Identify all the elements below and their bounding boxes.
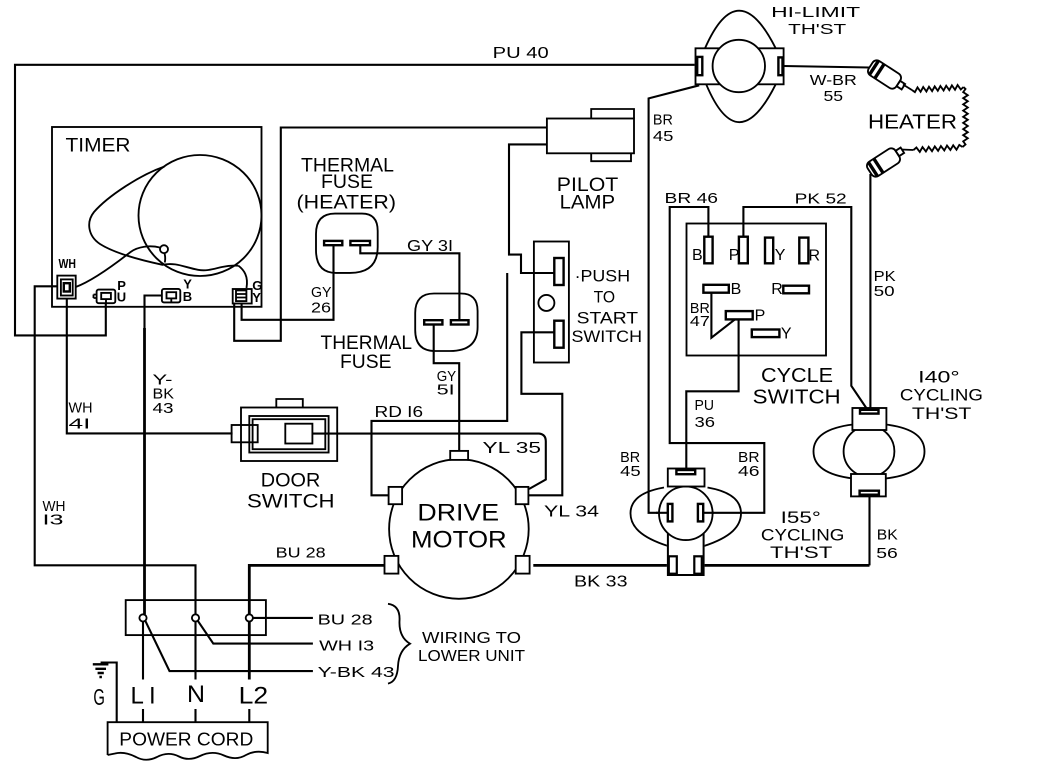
svg-text:THERMAL: THERMAL [321, 333, 413, 354]
svg-text:W-BR: W-BR [810, 72, 857, 89]
wire N down [194, 622, 196, 723]
155 t'stat left lobe [631, 488, 669, 547]
svg-text:DOOR: DOOR [261, 471, 321, 492]
svg-text:HEATER: HEATER [868, 112, 957, 134]
wire door switch to motor YL 35 plug [312, 434, 546, 489]
heater top plug connector [866, 58, 908, 93]
brace wiring to lower unit [388, 604, 410, 684]
wire BK 33 : motor lower-right tab to 155 t'stat and BK 56 [533, 564, 869, 567]
svg-text:SWITCH: SWITCH [753, 386, 841, 408]
thermal fuse (heater) right terminal [350, 241, 370, 245]
155 t'stat top tab [668, 469, 705, 487]
svg-text:B: B [183, 289, 192, 304]
svg-text:BU 28: BU 28 [276, 545, 326, 562]
thermal fuse left terminal [424, 320, 442, 324]
svg-text:LOWER UNIT: LOWER UNIT [418, 648, 525, 665]
svg-text:TH'ST: TH'ST [788, 21, 846, 38]
svg-text:FUSE: FUSE [340, 352, 392, 373]
svg-text:GY 3I: GY 3I [407, 238, 453, 255]
motor top tab [450, 451, 468, 460]
wire Y-BK 43 : timer Y/B terminal down to terminal block L1 [145, 296, 162, 331]
svg-text:I: I [149, 683, 156, 710]
wire plug tip to coil [903, 85, 912, 91]
svg-text:36: 36 [695, 414, 716, 431]
wire WH 13 stub to label [198, 621, 313, 644]
svg-text:SWITCH: SWITCH [572, 327, 643, 346]
svg-text:TIMER: TIMER [66, 136, 131, 157]
wire WH 13 : timer WH terminal to terminal block N [35, 286, 196, 614]
push-to-start top contact [554, 258, 563, 285]
svg-text:Y: Y [781, 325, 792, 342]
140 t'stat bottom tab [851, 474, 886, 496]
timer wire from WH terminal [76, 246, 160, 287]
svg-text:B: B [731, 281, 742, 298]
wire L2 down [248, 622, 251, 680]
door switch contact [285, 424, 312, 444]
svg-text:55: 55 [824, 88, 844, 105]
svg-text:CYCLING: CYCLING [761, 525, 845, 544]
wire PK 52 : cycle switch P to 140 t'stat top [743, 207, 868, 411]
svg-text:POWER CORD: POWER CORD [119, 728, 253, 749]
svg-text:BU 28: BU 28 [318, 612, 373, 629]
155 t'stat right contact [698, 504, 703, 522]
svg-text:I40°: I40° [918, 367, 960, 386]
svg-text:R: R [809, 248, 821, 265]
svg-text:4I: 4I [69, 416, 91, 433]
svg-text:G: G [93, 684, 105, 710]
timer tail to G/BY [238, 266, 247, 288]
wire PK 50 : heater bottom plug down to 140 t'stat [869, 174, 871, 411]
wire WH 41 : timer WH terminal down to door switch [67, 299, 233, 434]
svg-text:B: B [692, 247, 703, 264]
cycle switch contact P [726, 311, 753, 319]
svg-text:RD I6: RD I6 [375, 404, 424, 421]
svg-text:CYCLING: CYCLING [900, 386, 983, 405]
140 t'stat right lobe [886, 425, 925, 479]
door switch left plug [232, 425, 258, 442]
155 t'stat circle [659, 487, 713, 541]
svg-text:L2: L2 [239, 683, 269, 710]
wire BU 28 : motor lower-left tab to terminal block L2 [249, 565, 384, 614]
wire BR46 into right contact [703, 512, 714, 514]
wire BR 45 : hi-limit down to 155 t'stat left [649, 85, 700, 513]
svg-text:WIRING TO: WIRING TO [422, 630, 521, 647]
wire BU 28 stub to label [253, 617, 313, 619]
wire W-BR 55 : hi-limit to heater top plug [784, 66, 869, 68]
timer pivot hook [164, 253, 167, 262]
svg-text:PU: PU [695, 397, 715, 414]
timer cam circle [139, 155, 262, 276]
door switch top tab [276, 399, 303, 408]
cycle switch contact B [703, 285, 728, 293]
svg-text:DRIVE: DRIVE [417, 500, 499, 527]
wire YL 34 : push-to-start to motor upper-right tab [521, 332, 562, 495]
motor lower-right tab [516, 556, 530, 574]
svg-text:BK 33: BK 33 [574, 574, 628, 591]
svg-text:TO: TO [594, 287, 616, 306]
wire pilot lamp to push-to-start switch [509, 144, 554, 273]
svg-text:45: 45 [620, 463, 641, 480]
timer cam follower lobe [89, 167, 238, 271]
cycle switch box [687, 224, 827, 356]
timer terminal Y/B [162, 289, 180, 303]
pilot lamp top tab [591, 109, 634, 119]
svg-text:FUSE: FUSE [321, 172, 373, 193]
terminal L1 node [139, 614, 146, 621]
svg-text:GY: GY [311, 284, 332, 301]
svg-text:·PUSH: ·PUSH [575, 267, 631, 286]
push-to-start switch body [534, 242, 569, 363]
svg-text:BR: BR [653, 111, 673, 128]
drive motor circle [389, 459, 529, 599]
power cord box [108, 722, 268, 760]
svg-text:WH: WH [69, 400, 93, 417]
wire timer G/BY loop to pilot lamp [234, 128, 547, 341]
svg-text:HI-LIMIT: HI-LIMIT [771, 4, 860, 21]
svg-text:26: 26 [311, 300, 331, 317]
cycle switch terminal R [799, 238, 808, 264]
terminal N node [192, 614, 199, 621]
heater coil bottom run [914, 145, 963, 152]
svg-text:SWITCH: SWITCH [247, 491, 335, 512]
svg-text:LAMP: LAMP [560, 192, 616, 213]
svg-text:46: 46 [738, 463, 760, 480]
svg-text:P: P [755, 308, 766, 325]
svg-text:CYCLE: CYCLE [761, 365, 833, 387]
svg-text:50: 50 [874, 283, 895, 300]
motor upper-right tab [516, 487, 529, 504]
svg-text:47: 47 [690, 313, 710, 330]
svg-text:Y-BK 43: Y-BK 43 [318, 664, 395, 681]
wire coil to bottom plug tip [902, 149, 914, 152]
wire PU 40 : timer P/U terminal down, left border, top run to hi-limit [15, 65, 695, 336]
svg-text:45: 45 [653, 128, 674, 145]
svg-text:U: U [117, 290, 126, 305]
door switch outer body [241, 408, 337, 462]
hi-limit right contact [778, 57, 782, 75]
cycle switch terminal P [739, 237, 748, 264]
155 t'stat right foot [694, 556, 702, 573]
heater coil right run [963, 87, 968, 147]
terminal block [126, 600, 266, 635]
timer terminal WH [57, 276, 75, 299]
wire BR 46 : cycle switch B to 155 t'stat right [670, 207, 765, 513]
svg-text:WH: WH [59, 256, 77, 271]
svg-text:R: R [771, 281, 783, 298]
svg-text:N: N [187, 681, 205, 708]
155 t'stat left contact [668, 504, 673, 522]
thermal fuse body [415, 294, 477, 352]
motor upper-left tab [389, 487, 403, 504]
timer box [52, 127, 262, 307]
svg-text:43: 43 [153, 400, 174, 417]
push-to-start cam circle [538, 295, 554, 311]
wire L1 down [142, 622, 144, 723]
svg-text:YL 35: YL 35 [483, 440, 542, 457]
wire BR45 into left contact [656, 512, 668, 514]
svg-text:PK 52: PK 52 [795, 191, 847, 208]
heater bottom plug connector [865, 143, 907, 178]
svg-text:BR 46: BR 46 [665, 190, 719, 207]
wire Y-BK 43 stub to label [145, 621, 313, 671]
svg-text:BK: BK [877, 527, 898, 544]
thermal fuse right terminal [451, 320, 469, 324]
thermal fuse (heater) body [316, 214, 378, 273]
svg-text:L: L [131, 683, 144, 710]
svg-text:Y: Y [775, 247, 786, 264]
wire RD 16 : node to door switch [372, 273, 508, 495]
heater coil top run [912, 85, 964, 92]
svg-text:I55°: I55° [781, 508, 821, 527]
140 t'stat left lobe [814, 425, 854, 479]
svg-text:5I: 5I [437, 381, 455, 398]
svg-text:TH'ST: TH'ST [770, 543, 832, 562]
timer pivot circle [160, 245, 168, 253]
wire GY 26 : timer G/BY to thermal fuse (heater) [242, 245, 334, 320]
hi-limit t'stat bottom lobe [706, 84, 776, 122]
155 t'stat right lobe [704, 488, 741, 547]
hi-limit t'stat top lobe [705, 11, 776, 49]
cycle switch terminal B [704, 237, 712, 264]
wire BK 56 : 140 t'stat bottom down to BK 33 run [868, 496, 870, 565]
wire PU 36 : cycle switch P contact down to 155 t'stat top [686, 319, 738, 470]
motor lower-left tab [385, 556, 399, 574]
timer terminal P/U [97, 290, 116, 304]
svg-text:TH'ST: TH'ST [912, 404, 972, 423]
hi-limit left contact [697, 57, 702, 75]
svg-text:(HEATER): (HEATER) [297, 193, 397, 214]
svg-text:56: 56 [876, 545, 898, 562]
svg-text:YL 34: YL 34 [544, 504, 599, 521]
155 t'stat bottom body [667, 541, 705, 575]
door switch inner body [249, 416, 328, 453]
svg-text:I3: I3 [43, 512, 64, 529]
140 t'stat top tab [852, 408, 886, 430]
svg-text:Y: Y [252, 290, 261, 305]
hi-limit t'stat circle [713, 40, 765, 92]
svg-text:START: START [577, 309, 639, 328]
svg-text:PU 40: PU 40 [493, 45, 549, 62]
wire GY 31 : thermal fuse (heater) to thermal fuse [360, 245, 459, 320]
155 t'stat left foot [669, 556, 677, 573]
svg-text:P: P [729, 247, 740, 264]
pilot lamp bottom tab [591, 153, 631, 161]
140 t'stat circle [844, 426, 895, 477]
cycle switch contact R [783, 286, 809, 294]
wire ground [101, 663, 117, 723]
wire GY 51 : thermal fuse to drive motor top [434, 325, 460, 451]
wire BR 47 : cycle switch B contact to P contact [711, 293, 735, 338]
svg-text:WH I3: WH I3 [319, 638, 374, 655]
thermal fuse (heater) left terminal [324, 241, 342, 245]
svg-text:MOTOR: MOTOR [411, 526, 507, 553]
cycle switch contact Y [752, 330, 780, 338]
cycle switch terminal Y [765, 238, 773, 264]
hi-limit t'stat body [696, 48, 784, 84]
push-to-start bottom contact [554, 321, 563, 348]
ground symbol [93, 664, 109, 677]
terminal L2 node [246, 614, 253, 621]
timer terminal G/BY [233, 289, 252, 304]
pilot lamp body [547, 119, 634, 154]
